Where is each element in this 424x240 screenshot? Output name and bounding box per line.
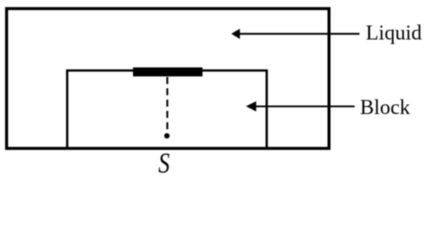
- svg-text:Block: Block: [360, 95, 411, 119]
- svg-text:Liquid: Liquid: [366, 21, 422, 45]
- svg-text:S: S: [158, 147, 170, 176]
